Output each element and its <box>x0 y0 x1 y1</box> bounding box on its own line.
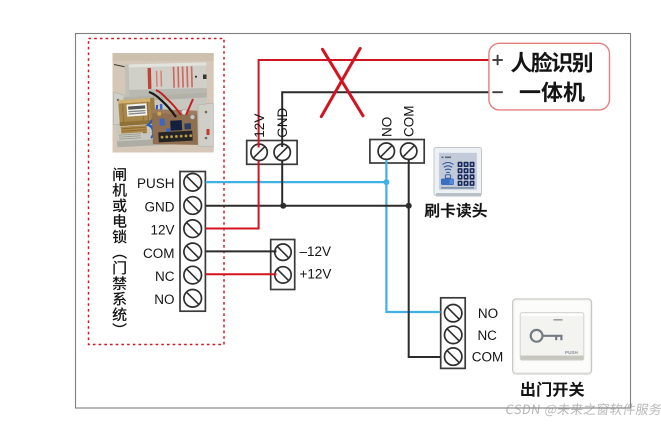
svg-text:NO: NO <box>379 117 394 137</box>
svg-text:NO: NO <box>154 292 174 307</box>
junction: black node at GND rail <box>280 203 286 209</box>
terminal block TB2 (12V/GND) <box>247 141 297 165</box>
dashed enclosure: gate/lock system boundary <box>89 39 225 345</box>
label 出门开关 <box>521 382 584 397</box>
plus terminal of face unit <box>492 55 502 65</box>
junction: cyan node <box>383 179 389 185</box>
junction: black node on COM drop <box>406 203 412 209</box>
terminal block TB3 (NO/COM) <box>370 140 424 164</box>
crossed-out mark X over face-unit wires <box>321 48 363 116</box>
wire: TB2 12V up to face unit + (red) <box>259 60 489 148</box>
svg-text:NC: NC <box>155 269 175 284</box>
wire: GND to reader COM (black) <box>206 205 409 207</box>
wire: PUSH to reader NO (cyan) <box>206 181 387 183</box>
label 一体机 <box>520 82 585 103</box>
svg-text:COM: COM <box>402 106 417 138</box>
svg-text:NO: NO <box>478 306 498 321</box>
minus terminal of face unit <box>492 91 502 93</box>
svg-text:–12V: –12V <box>300 244 332 259</box>
power supply photo <box>113 53 214 153</box>
wire: TB2 GND up to face unit - (black) <box>282 92 489 147</box>
svg-text:GND: GND <box>145 199 175 214</box>
terminal block TB5 (NO/NC/COM) <box>441 298 466 369</box>
wire: COM to TB4 -12V (black) <box>206 250 277 252</box>
svg-text:COM: COM <box>143 246 175 261</box>
svg-text:PUSH: PUSH <box>137 176 175 191</box>
watermark CSDN @未来之窗软件服务 <box>505 403 661 416</box>
wire: TB2 GND down to GND rail (black) <box>281 161 283 206</box>
svg-text:PUSH: PUSH <box>565 350 578 355</box>
svg-text:+12V: +12V <box>300 266 332 281</box>
svg-text:GND: GND <box>275 107 290 137</box>
label 人脸识别 <box>511 52 592 73</box>
wire: reader NO down to exit switch NO (cyan) <box>386 160 440 312</box>
exit switch (door release button) <box>513 299 592 374</box>
svg-text:12V: 12V <box>252 114 267 138</box>
wire: TB1 12V to TB2 12V (red) <box>206 161 259 229</box>
wire: reader COM down to exit switch COM (black) <box>409 160 441 357</box>
label 刷卡读头 <box>425 203 487 218</box>
label 闸机或电锁（门禁系统） vertical <box>112 168 126 328</box>
svg-text:NC: NC <box>477 328 497 343</box>
terminal block TB4 (-12V/+12V) <box>271 240 295 290</box>
svg-text:COM: COM <box>472 349 504 364</box>
terminal block TB1 (PUSH/GND/12V/COM/NC/NO) <box>180 172 205 312</box>
svg-text:12V: 12V <box>150 223 174 238</box>
wire: NC to TB4 +12V (red) <box>206 273 277 275</box>
card reader device <box>434 148 482 197</box>
face recognition unit box <box>489 43 610 110</box>
